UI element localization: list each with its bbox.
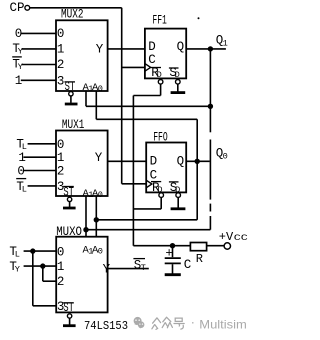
svg-text:1: 1 bbox=[57, 43, 65, 57]
wire MUX0 A1 stub bbox=[85, 230, 87, 237]
watermark text gong-zhong-hao bbox=[152, 317, 184, 329]
wire CP horizontal bbox=[30, 7, 122, 9]
wire Q0 to MUX2.A0 bbox=[96, 118, 197, 120]
wire MUX2 input 2 bbox=[22, 64, 56, 66]
multiplexer MUX2 bbox=[56, 7, 108, 94]
node TL (MUX0 pin0) bbox=[9, 245, 20, 260]
svg-text:0: 0 bbox=[98, 247, 103, 257]
svg-text:0: 0 bbox=[98, 84, 103, 94]
svg-text:1: 1 bbox=[15, 74, 23, 88]
wire MUX0 input 1 bbox=[24, 265, 57, 267]
svg-text:Y: Y bbox=[15, 264, 20, 274]
wire TL branch vertical bbox=[32, 251, 34, 306]
node TY-bar (MUX2 pin2) bbox=[12, 57, 23, 72]
node ST output label bbox=[133, 259, 145, 273]
svg-text:FF1: FF1 bbox=[152, 13, 167, 27]
MUX0 ST enable bubble bbox=[67, 314, 71, 318]
node Q1 label bbox=[216, 34, 228, 49]
svg-text:D: D bbox=[148, 40, 156, 54]
wire CP branch to FF0 clock bbox=[122, 183, 147, 185]
svg-text:2: 2 bbox=[57, 164, 65, 178]
flip-flop FF0 bbox=[146, 130, 186, 195]
svg-text:2: 2 bbox=[57, 275, 65, 289]
wire FF1 RD down bbox=[160, 84, 162, 95]
svg-text:Q: Q bbox=[177, 154, 185, 168]
svg-text:MUX1: MUX1 bbox=[62, 118, 85, 132]
wire MUX2.Y to FF1.D bbox=[108, 48, 145, 50]
svg-text:D: D bbox=[150, 154, 158, 168]
svg-text:CC: CC bbox=[234, 233, 248, 243]
node Q0 label bbox=[216, 146, 228, 161]
ground (MUX1 ST) bbox=[63, 207, 76, 210]
resistor R bbox=[190, 243, 206, 266]
svg-text:0: 0 bbox=[57, 138, 65, 152]
svg-text:Y: Y bbox=[103, 263, 111, 277]
svg-text:·: · bbox=[191, 314, 195, 329]
junction MUX1.A1 / MUX0.A1 bbox=[84, 228, 88, 232]
ground (FF0 SD) bbox=[171, 207, 186, 210]
flip-flop FF1 bbox=[145, 13, 186, 80]
svg-text:L: L bbox=[22, 185, 27, 195]
svg-text:0: 0 bbox=[15, 27, 23, 41]
node TY (MUX2 pin1) bbox=[12, 42, 23, 57]
wire MUX0 input 2 bbox=[43, 280, 56, 282]
svg-text:D: D bbox=[175, 70, 180, 80]
wire MUX1 ST to ground bbox=[69, 202, 71, 207]
MUX2 ST enable bubble bbox=[69, 92, 73, 96]
svg-text:74LS153: 74LS153 bbox=[84, 319, 128, 333]
wire MUX2 input 1 bbox=[22, 48, 56, 50]
MUX1 ST enable bubble bbox=[67, 197, 71, 201]
svg-text:CP: CP bbox=[10, 1, 25, 15]
wire MUX0 A0 stub bbox=[95, 220, 97, 237]
svg-text:Y: Y bbox=[95, 151, 103, 165]
wire MUX2 A0 stub bbox=[95, 91, 97, 119]
junction TY branch bbox=[41, 264, 45, 268]
svg-text:+: + bbox=[165, 246, 173, 260]
stray dot artifact bbox=[198, 17, 200, 19]
input terminal CP bbox=[10, 1, 30, 15]
svg-text:2: 2 bbox=[57, 58, 65, 72]
svg-text:MUXO: MUXO bbox=[56, 225, 82, 239]
wire FF1 SD to ground bbox=[177, 84, 179, 91]
svg-text:Q: Q bbox=[177, 40, 185, 54]
junction Q0 output bbox=[195, 159, 199, 163]
power terminal +Vcc bbox=[219, 230, 248, 249]
svg-text:T: T bbox=[141, 263, 146, 273]
wire MUX0.Y output ST-signal bbox=[108, 268, 149, 270]
svg-text:1: 1 bbox=[18, 151, 26, 165]
FF0 RD-bar bubble bbox=[159, 193, 164, 198]
ground (MUX0 ST) bbox=[63, 324, 76, 327]
node TL-bar (MUX1 pin3) bbox=[16, 179, 27, 195]
FF1 SD-bar bubble bbox=[176, 80, 181, 85]
svg-text:Multisim: Multisim bbox=[199, 318, 247, 332]
ground (MUX2 ST) bbox=[65, 103, 78, 106]
svg-text:0: 0 bbox=[57, 27, 65, 41]
wire MUX0 ST to ground bbox=[69, 318, 71, 324]
svg-text:3: 3 bbox=[57, 75, 65, 89]
wire FF1.Q output bbox=[186, 48, 226, 50]
wire MUX1 input 1 bbox=[23, 156, 56, 158]
svg-text:Y: Y bbox=[18, 47, 23, 57]
svg-text:D: D bbox=[157, 70, 162, 80]
svg-text:L: L bbox=[15, 249, 20, 259]
multiplexer MUX1 bbox=[56, 118, 108, 200]
ground (capacitor) bbox=[165, 273, 181, 276]
junction MUX1.A0 / MUX0.A0 bbox=[94, 218, 98, 222]
wire CP branch to FF1 clock bbox=[122, 66, 145, 68]
svg-text:0: 0 bbox=[57, 245, 65, 259]
junction TL branch bbox=[31, 249, 35, 253]
wire Q0 net vertical bbox=[196, 119, 198, 220]
wire Q1 vertical segment b bbox=[209, 140, 211, 200]
svg-text:1: 1 bbox=[57, 260, 65, 274]
svg-text:Y: Y bbox=[96, 42, 104, 56]
wire MUX1 input 2 bbox=[23, 170, 56, 172]
wire FF0 RD left to ST-bar net bbox=[133, 208, 161, 210]
wire MUX0 input 3 bbox=[33, 305, 56, 307]
wire Q1 to MUX2.A1 bbox=[86, 105, 210, 107]
junction RC node bbox=[171, 244, 175, 248]
wire Q1 vertical segment c bbox=[209, 204, 211, 212]
wire MUX1.Y to FF0.D bbox=[108, 160, 147, 162]
wire Q1 to MUX1.A1 bbox=[86, 229, 210, 231]
wire FF0 RD down bbox=[160, 197, 162, 209]
node TY (MUX0 pin1) bbox=[9, 260, 20, 275]
watermark logo wechat bbox=[134, 317, 145, 329]
wire FF0 SD to ground bbox=[177, 197, 179, 207]
wire MUX2 input 3 bbox=[21, 79, 56, 81]
wire MUX1 input 0 bbox=[28, 143, 56, 145]
wire ST-bar net vertical bbox=[132, 96, 134, 246]
FF1 RD-bar bubble bbox=[158, 80, 163, 85]
svg-text:0: 0 bbox=[17, 164, 25, 178]
wire TY branch vertical bbox=[42, 266, 44, 281]
svg-text:MUX2: MUX2 bbox=[61, 7, 84, 21]
wire CP vertical trunk bbox=[121, 8, 123, 184]
wire MUX0 input 0 bbox=[24, 250, 57, 252]
svg-text:0: 0 bbox=[98, 190, 103, 200]
svg-text:FFO: FFO bbox=[153, 130, 168, 144]
svg-text:Y: Y bbox=[18, 62, 23, 72]
junction Q1 output bbox=[209, 47, 213, 51]
wire Q1 vertical segment d bbox=[209, 216, 211, 230]
wire MUX2 input 0 bbox=[21, 32, 56, 34]
junction Q1 to MUX2.A1 line bbox=[209, 104, 213, 108]
svg-text:1: 1 bbox=[57, 151, 65, 165]
svg-text:C: C bbox=[184, 258, 192, 272]
wire resistor to Vcc bbox=[207, 245, 225, 247]
wire MUX1 A1 stub bbox=[85, 196, 87, 230]
capacitor C (polarized) bbox=[165, 246, 192, 274]
wire Q0 to MUX1.A0 bbox=[96, 219, 197, 221]
FF0 SD-bar bubble bbox=[176, 193, 181, 198]
wire MUX2 ST to ground bbox=[70, 96, 72, 103]
wire FF0.Q output bbox=[186, 160, 209, 162]
wire MUX1 A0 stub bbox=[95, 196, 97, 220]
svg-text:0: 0 bbox=[223, 151, 228, 161]
ground (FF1 SD) bbox=[171, 91, 186, 94]
wire FF1 RD left to ST-bar net bbox=[133, 95, 160, 97]
multiplexer MUX0 bbox=[56, 225, 110, 315]
svg-text:1: 1 bbox=[223, 39, 228, 49]
wire MUX1 input 3 bbox=[28, 185, 56, 187]
wire MUX2 A1 stub bbox=[85, 91, 87, 106]
node TL (MUX1 pin0) bbox=[16, 138, 27, 153]
wire Q1 vertical segment a bbox=[209, 49, 211, 132]
wire ST-bar net to RC junction bbox=[133, 245, 190, 247]
svg-text:R: R bbox=[196, 252, 203, 266]
svg-text:+V: +V bbox=[219, 230, 234, 244]
